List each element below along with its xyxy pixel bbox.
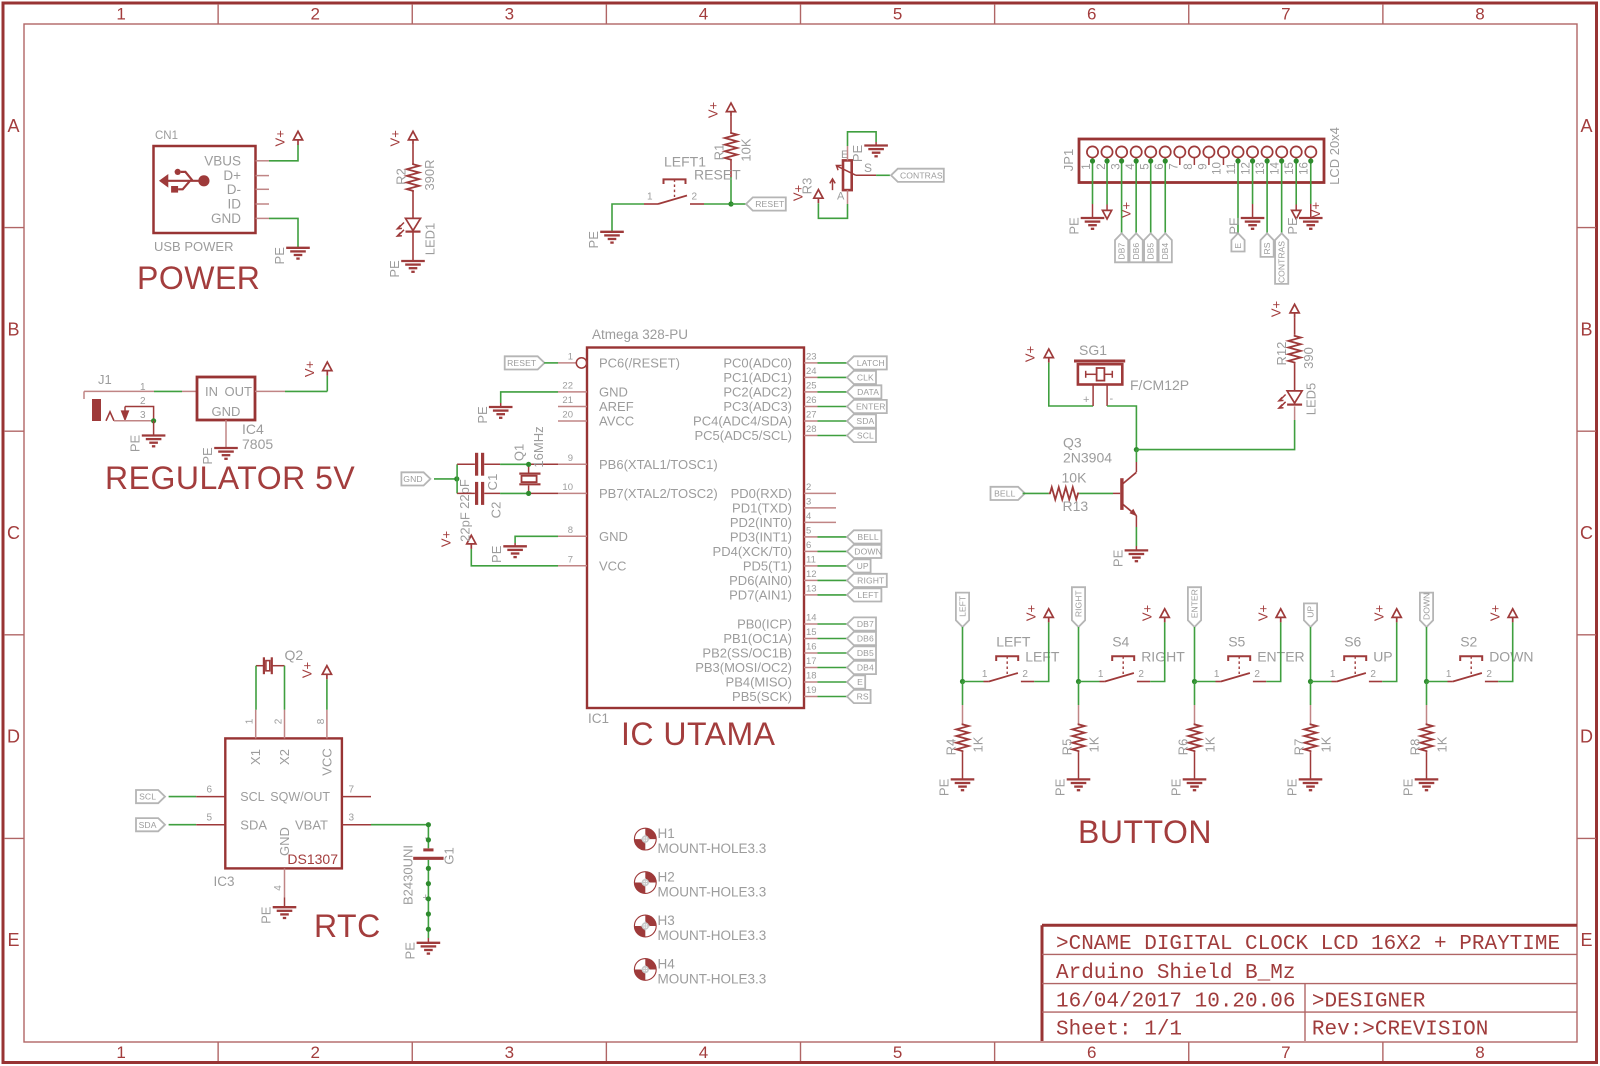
svg-text:IC1: IC1 — [588, 711, 609, 726]
svg-text:UP: UP — [1306, 606, 1316, 618]
CN1 pin D+ — [256, 175, 270, 177]
crystal Q2 — [256, 657, 285, 674]
ground PE (R5) — [1053, 778, 1091, 796]
node UP (flag) — [1304, 603, 1317, 627]
svg-text:13: 13 — [1255, 162, 1267, 175]
IC1 pin 9 PB6(XTAL1/TOSC1) — [558, 453, 718, 472]
power V+ (IC4) — [302, 361, 332, 377]
svg-text:DS1307: DS1307 — [287, 851, 338, 867]
node ENTER (IC1.26) — [847, 400, 887, 413]
IC1 pin 6 PD4(XCK/T0) — [713, 540, 818, 559]
svg-text:GND: GND — [277, 827, 292, 856]
power V+ (JP1.2) — [1102, 202, 1133, 219]
wire JP1.15 to V+ — [1295, 161, 1297, 205]
wire JP1.3 to DB7 — [1121, 161, 1123, 233]
node RS — [1261, 233, 1274, 257]
svg-text:DB7: DB7 — [1117, 243, 1127, 260]
svg-text:RS: RS — [1262, 242, 1272, 254]
svg-text:R1: R1 — [712, 144, 727, 161]
svg-text:R7: R7 — [1292, 739, 1307, 756]
node ENTER (flag) — [1188, 587, 1201, 627]
svg-text:16/04/2017 10.20.06: 16/04/2017 10.20.06 — [1056, 991, 1295, 1014]
junction — [1294, 158, 1299, 163]
node DB6 — [1130, 233, 1143, 262]
IC1 pin 11 PD5(T1) — [743, 554, 818, 573]
svg-text:10: 10 — [562, 482, 573, 493]
wire IC1.25 to DATA — [818, 391, 848, 393]
JP1 pin 13 — [1255, 146, 1273, 174]
svg-text:DB6: DB6 — [1131, 243, 1141, 260]
wire R6 to PE — [1194, 752, 1196, 779]
svg-text:PC0(ADC0): PC0(ADC0) — [723, 355, 792, 370]
node RS (IC1.19) — [847, 690, 871, 703]
svg-text:PE: PE — [387, 260, 402, 278]
svg-text:DOWN: DOWN — [854, 547, 882, 557]
junction ENTER — [1192, 679, 1197, 684]
junction — [1265, 158, 1270, 163]
svg-text:R6: R6 — [1176, 739, 1191, 756]
svg-text:V+: V+ — [1488, 605, 1503, 621]
junction G1 pin — [426, 911, 431, 916]
wire IC1.22 to PE — [501, 392, 558, 403]
wire UP to R7 — [1310, 682, 1312, 724]
svg-text:2: 2 — [692, 192, 698, 203]
IC1 pin 17 PB3(MOSI/OC2) — [695, 656, 817, 675]
IC1 pin 5 PD3(INT1) — [730, 525, 818, 544]
wire DOWN to R8 — [1426, 682, 1428, 724]
svg-text:IN: IN — [205, 384, 218, 399]
wire G1 to PE — [427, 938, 429, 943]
node RESET (flag at IC1) — [505, 356, 545, 369]
junction — [1279, 158, 1284, 163]
svg-text:PE: PE — [937, 778, 952, 796]
resistor R4 — [956, 723, 968, 752]
wire IC1.6 to DOWN — [818, 550, 848, 552]
IC1 pin 7 VCC — [558, 554, 626, 573]
svg-text:SDA: SDA — [139, 820, 157, 830]
IC3 pin 6 — [196, 785, 225, 797]
svg-text:S2: S2 — [1460, 633, 1477, 649]
ground PE (R7) — [1285, 778, 1323, 796]
wire J1.2 bracket — [125, 407, 154, 421]
wire IC1.19 to RS — [818, 696, 848, 698]
junction RIGHT — [1076, 679, 1081, 684]
wire JP1.2 to V+ — [1106, 161, 1108, 205]
wire V+ to R2 — [412, 145, 414, 163]
svg-text:6: 6 — [1087, 5, 1096, 24]
svg-text:PE: PE — [475, 406, 490, 424]
svg-text:PD0(RXD): PD0(RXD) — [731, 486, 792, 501]
svg-text:S4: S4 — [1112, 633, 1129, 649]
svg-text:28: 28 — [806, 424, 817, 435]
svg-text:Q3: Q3 — [1063, 435, 1082, 451]
node DB4 (IC1.17) — [847, 661, 876, 674]
svg-text:V+: V+ — [1024, 605, 1039, 621]
svg-text:C2: C2 — [489, 502, 504, 519]
svg-text:13: 13 — [806, 583, 817, 594]
R3 pin A stub — [847, 190, 849, 204]
wire RESET flag to IC1.1 — [544, 362, 558, 364]
svg-text:8: 8 — [568, 525, 573, 536]
svg-text:9: 9 — [568, 453, 573, 464]
JP1 pin 8 — [1183, 146, 1200, 169]
wire V+ to R12 — [1294, 318, 1296, 335]
svg-text:MOUNT-HOLE3.3: MOUNT-HOLE3.3 — [658, 885, 767, 900]
wire IC1.17 to DB4 — [818, 667, 848, 669]
svg-text:ENTER: ENTER — [1190, 589, 1200, 618]
svg-text:6: 6 — [206, 785, 212, 796]
node DB7 — [1115, 233, 1128, 262]
junction G1 pin — [426, 822, 431, 827]
transistor Q3 2N3904 — [1113, 462, 1136, 527]
junction — [1104, 158, 1109, 163]
svg-text:B: B — [7, 319, 19, 339]
svg-text:Q1: Q1 — [512, 444, 527, 461]
IC1 pin 14 PB0(ICP) — [737, 613, 817, 632]
svg-text:1K: 1K — [1319, 736, 1334, 752]
JP1 pin 14 — [1269, 146, 1287, 174]
wire Q3.E to PE — [1135, 527, 1137, 546]
node RESET (flag) — [746, 197, 786, 210]
wire LEFT1 pin1 to PE — [612, 204, 644, 232]
svg-text:V+: V+ — [791, 185, 806, 201]
svg-text:1K: 1K — [971, 736, 986, 752]
svg-text:24: 24 — [806, 366, 817, 377]
svg-text:6: 6 — [806, 540, 811, 551]
LED LED5 — [1279, 391, 1302, 408]
svg-text:25: 25 — [806, 380, 817, 391]
IC1 pin 12 PD6(AIN0) — [729, 569, 817, 588]
svg-text:1K: 1K — [1087, 736, 1102, 752]
svg-text:PE: PE — [259, 906, 274, 924]
svg-text:RIGHT: RIGHT — [1074, 590, 1084, 617]
svg-text:PD3(INT1): PD3(INT1) — [730, 529, 792, 544]
svg-text:F/CM12P: F/CM12P — [1130, 377, 1189, 393]
wire GND flag to caps — [434, 478, 457, 480]
node DB7 (IC1.14) — [847, 617, 876, 630]
svg-text:4: 4 — [699, 5, 708, 24]
svg-text:D: D — [7, 727, 20, 747]
junction RESET — [728, 201, 733, 206]
svg-text:PE: PE — [128, 435, 143, 453]
junction XTAL2 — [526, 491, 531, 496]
wire R3.E to PE — [848, 132, 877, 146]
wire R1 to node RESET — [730, 177, 732, 204]
wire R7 to PE — [1310, 752, 1312, 779]
JP1 pin 5 — [1139, 146, 1156, 169]
JP1 pin 12 — [1240, 146, 1258, 174]
svg-text:RS: RS — [857, 692, 869, 702]
power V+ (R1) — [706, 102, 736, 118]
wire IC1.13 to LEFT — [818, 594, 848, 596]
svg-text:DB5: DB5 — [1146, 243, 1156, 260]
svg-text:8: 8 — [316, 718, 327, 724]
wire V+ to R1 — [730, 117, 732, 132]
wire V+ to switch pin2 — [1034, 622, 1049, 681]
JP1 pin 15 — [1284, 146, 1302, 174]
wire SCL flag to IC3.6 — [169, 796, 197, 798]
svg-text:V+: V+ — [1256, 605, 1271, 621]
resistor R7 — [1304, 723, 1316, 752]
wire RIGHT flag down — [1078, 627, 1080, 682]
svg-text:E: E — [7, 930, 19, 950]
svg-text:16: 16 — [1299, 162, 1311, 175]
svg-text:DOWN: DOWN — [1489, 648, 1533, 664]
svg-text:GND: GND — [212, 404, 241, 419]
svg-text:C1: C1 — [485, 474, 500, 491]
svg-text:R4: R4 — [944, 739, 959, 756]
svg-text:B2430UNI: B2430UNI — [401, 845, 416, 905]
svg-text:VCC: VCC — [319, 748, 334, 775]
IC1 pin 1 PC6(/RESET) — [558, 351, 680, 370]
svg-text:X1: X1 — [248, 749, 263, 765]
switch S4 RIGHT — [1098, 633, 1185, 681]
IC1 pin 26 PC3(ADC3) — [723, 395, 817, 414]
svg-text:V+: V+ — [388, 130, 403, 146]
title block — [1042, 925, 1577, 1041]
svg-text:GND: GND — [599, 529, 628, 544]
junction — [1250, 158, 1255, 163]
svg-text:V+: V+ — [273, 130, 288, 146]
wire BELL to R13 — [1023, 492, 1049, 494]
svg-text:16MHz: 16MHz — [531, 426, 546, 467]
svg-text:PB4(MISO): PB4(MISO) — [726, 675, 792, 690]
wire J1.3 — [114, 420, 154, 422]
svg-text:PB2(SS/OC1B): PB2(SS/OC1B) — [702, 646, 792, 661]
CN1 pin ID — [256, 203, 270, 205]
svg-text:6: 6 — [1087, 1043, 1096, 1062]
svg-text:PC4(ADC4/SDA): PC4(ADC4/SDA) — [693, 414, 792, 429]
svg-text:R8: R8 — [1408, 739, 1423, 756]
svg-text:A: A — [7, 116, 19, 136]
wire IC1.28 to SCL — [818, 435, 848, 437]
connector J1 power jack — [92, 372, 146, 421]
ground PE (IC1.22) — [475, 406, 513, 424]
svg-text:>CNAME DIGITAL CLOCK LCD 16X2: >CNAME DIGITAL CLOCK LCD 16X2 + PRAYTIME — [1056, 933, 1560, 956]
wire Q3.C to LED5 — [1136, 420, 1294, 450]
svg-text:SDA: SDA — [856, 416, 874, 426]
svg-text:PB1(OC1A): PB1(OC1A) — [723, 631, 792, 646]
JP1 pin 16 — [1299, 146, 1317, 174]
svg-text:7: 7 — [1281, 5, 1290, 24]
svg-text:Arduino Shield B_Mz: Arduino Shield B_Mz — [1056, 962, 1295, 985]
svg-text:BELL: BELL — [857, 532, 879, 542]
JP1 pin 10 — [1211, 146, 1229, 174]
svg-text:LCD 20x4: LCD 20x4 — [1327, 127, 1342, 185]
svg-text:3: 3 — [1110, 163, 1122, 169]
svg-text:2: 2 — [806, 482, 811, 493]
JP1 pin 6 — [1154, 146, 1171, 169]
svg-text:2: 2 — [1486, 669, 1492, 680]
junction — [1090, 158, 1095, 163]
switch LEFT LEFT — [982, 633, 1060, 681]
svg-text:DATA: DATA — [857, 387, 879, 397]
svg-text:26: 26 — [806, 395, 817, 406]
wire C1-C2 left — [456, 464, 458, 493]
ground PE (LED1) — [387, 260, 425, 278]
wire IC3.3 to battery G1 — [371, 824, 428, 826]
svg-text:AVCC: AVCC — [599, 414, 634, 429]
svg-text:V+: V+ — [706, 102, 721, 118]
svg-text:1K: 1K — [1435, 736, 1450, 752]
svg-text:GND: GND — [403, 474, 422, 484]
ground PE (R4) — [937, 778, 975, 796]
wire IC1.5 to BELL — [818, 536, 848, 538]
mount hole H2 — [634, 870, 766, 900]
svg-text:PE: PE — [1285, 217, 1300, 235]
svg-text:2: 2 — [310, 1043, 319, 1062]
node RIGHT (flag) — [1072, 587, 1085, 627]
svg-text:2: 2 — [1370, 669, 1376, 680]
junction — [1235, 158, 1240, 163]
potentiometer R3 — [830, 149, 876, 203]
svg-text:D-: D- — [227, 182, 241, 197]
junction G1 pin — [426, 881, 431, 886]
mount hole H1 — [634, 826, 766, 856]
svg-text:SDA: SDA — [240, 818, 267, 833]
svg-text:UP: UP — [1373, 648, 1392, 664]
svg-text:2: 2 — [1138, 669, 1144, 680]
wire IC1.8 to PE — [515, 536, 558, 543]
junction G1 pin — [426, 896, 431, 901]
svg-text:LEFT: LEFT — [996, 633, 1031, 649]
svg-text:IC UTAMA: IC UTAMA — [621, 716, 776, 752]
svg-text:Sheet: 1/1: Sheet: 1/1 — [1056, 1019, 1182, 1042]
wire to PE (J1) — [153, 421, 155, 436]
wire LEFT flag down — [962, 627, 964, 682]
svg-text:H2: H2 — [658, 870, 675, 885]
node BELL (IC1.5) — [847, 530, 881, 543]
power V+ (SG1) — [1023, 346, 1054, 363]
wire IC4.OUT to V+ — [255, 376, 327, 392]
svg-text:10: 10 — [1211, 162, 1223, 175]
svg-text:RIGHT: RIGHT — [1141, 648, 1185, 664]
svg-text:SG1: SG1 — [1079, 342, 1107, 358]
buzzer SG1 F/CM12P — [1074, 361, 1125, 406]
svg-text:PD4(XCK/T0): PD4(XCK/T0) — [713, 544, 792, 559]
svg-text:SCL: SCL — [240, 790, 264, 804]
svg-text:OUT: OUT — [225, 384, 253, 399]
svg-text:PD6(AIN0): PD6(AIN0) — [729, 573, 792, 588]
node LEFT (IC1.13) — [847, 588, 881, 601]
resistor R12 — [1288, 335, 1300, 364]
crystal Q1 16MHz — [519, 464, 540, 493]
wire IC1.14 to DB7 — [818, 623, 848, 625]
svg-text:+: + — [1083, 394, 1089, 406]
wire C2 to Q1/IC1.10 — [500, 492, 528, 494]
JP1 pin 9 — [1198, 146, 1215, 169]
svg-text:V+: V+ — [302, 361, 317, 377]
svg-text:PE: PE — [272, 247, 287, 265]
switch S5 ENTER — [1214, 633, 1305, 681]
wire UP flag down — [1310, 627, 1312, 682]
svg-text:IC4: IC4 — [242, 421, 264, 437]
node E (IC1.18) — [847, 675, 865, 688]
wire JP1.14 to CONTRAS — [1281, 161, 1283, 233]
svg-text:PE: PE — [489, 545, 504, 563]
node CLK (IC1.24) — [847, 371, 876, 384]
IC1 pin 3 PD1(TXD) — [732, 496, 836, 515]
svg-text:LEFT: LEFT — [1025, 648, 1060, 664]
svg-text:PE: PE — [850, 145, 865, 163]
svg-text:DB6: DB6 — [857, 634, 874, 644]
JP1 pin 3 — [1110, 146, 1127, 169]
svg-text:BUTTON: BUTTON — [1078, 814, 1212, 850]
svg-text:USB POWER: USB POWER — [154, 239, 233, 254]
IC1 pin 4 PD2(INT0) — [730, 511, 836, 530]
node DB6 (IC1.15) — [847, 632, 876, 645]
node SDA (flag) — [136, 818, 165, 831]
IC1 pin 15 PB1(OC1A) — [723, 627, 817, 646]
IC U1 Atmega 328-PU (IC1) — [587, 327, 804, 726]
svg-text:4: 4 — [273, 885, 284, 891]
wire to switch pin1 — [1195, 681, 1216, 683]
svg-text:LED1: LED1 — [423, 223, 438, 256]
svg-text:4: 4 — [699, 1043, 708, 1062]
svg-text:PD5(T1): PD5(T1) — [743, 558, 792, 573]
svg-text:390R: 390R — [422, 159, 437, 190]
wire LEFT1 pin2 to RESET — [704, 203, 731, 205]
svg-text:RESET: RESET — [755, 199, 785, 209]
svg-text:7805: 7805 — [242, 436, 273, 452]
node SDA (IC1.27) — [847, 414, 876, 427]
IC1 pin 16 PB2(SS/OC1B) — [702, 642, 817, 661]
svg-text:1: 1 — [1330, 669, 1336, 680]
wire JP1.5 to DB5 — [1150, 161, 1152, 233]
svg-text:CONTRAS: CONTRAS — [900, 170, 943, 180]
svg-text:PB0(ICP): PB0(ICP) — [737, 617, 792, 632]
junction LEFT — [960, 679, 965, 684]
svg-text:LED5: LED5 — [1304, 383, 1319, 416]
node CONTRAS — [1275, 233, 1288, 284]
node DB5 — [1144, 233, 1157, 262]
IC1 pin 22 GND — [558, 380, 628, 399]
ground PE (R3) — [850, 145, 888, 163]
svg-text:3: 3 — [140, 410, 146, 421]
IC1 pin 27 PC4(ADC4/SDA) — [693, 410, 817, 429]
svg-text:2: 2 — [1096, 163, 1108, 169]
svg-text:V+: V+ — [439, 531, 454, 547]
svg-text:SCL: SCL — [139, 792, 156, 802]
svg-text:2N3904: 2N3904 — [1063, 450, 1112, 466]
svg-text:2: 2 — [274, 718, 285, 724]
IC1 pin 25 PC2(ADC2) — [723, 380, 817, 399]
svg-text:21: 21 — [562, 395, 573, 406]
regulator IC4 7805 — [197, 377, 273, 452]
wire IC1.18 to E — [818, 681, 848, 683]
IC3 pin 1 — [245, 710, 256, 739]
wire RESET to flag — [731, 203, 746, 205]
CN1 USB icon — [160, 169, 210, 193]
connector CN1 USB POWER — [154, 130, 256, 254]
svg-text:7: 7 — [568, 554, 573, 565]
wire R12 to LED5 — [1294, 364, 1296, 391]
wire IC1.12 to RIGHT — [818, 579, 848, 581]
svg-text:Q2: Q2 — [285, 647, 304, 663]
svg-text:20: 20 — [562, 410, 573, 421]
power V+ (R2) — [388, 130, 418, 146]
svg-text:2: 2 — [1022, 669, 1028, 680]
svg-text:PE: PE — [1169, 778, 1184, 796]
wire R13 to Q3.B — [1079, 492, 1113, 494]
svg-text:SCL: SCL — [857, 431, 874, 441]
svg-text:H3: H3 — [658, 913, 675, 928]
power V+ (LEFT) — [1024, 605, 1054, 623]
CN1 pin VBUS — [256, 160, 270, 162]
svg-text:C: C — [1580, 523, 1593, 543]
wire IC3.4 to PE — [284, 898, 286, 908]
junction — [1134, 158, 1139, 163]
